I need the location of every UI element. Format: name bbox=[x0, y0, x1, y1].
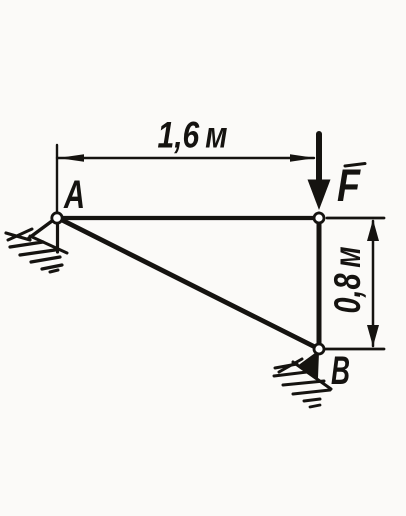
member CB (vertical bar) bbox=[317, 214, 322, 349]
support B hatch cross stroke bbox=[279, 359, 302, 372]
support B hatch 2 bbox=[274, 372, 307, 376]
svg-text:0,8 м: 0,8 м bbox=[327, 247, 368, 314]
support A right side bbox=[56, 222, 59, 252]
pin joint B bbox=[314, 344, 324, 354]
support B hatch 1 bbox=[275, 364, 297, 368]
vertical dimension top extension line bbox=[327, 217, 384, 220]
pin joint A bbox=[52, 213, 62, 223]
force F arrowhead bbox=[308, 180, 331, 211]
support A left side bbox=[29, 221, 52, 238]
dimension arrowhead up bbox=[367, 220, 379, 242]
support B hatch 4 bbox=[293, 390, 330, 394]
support A ground line bbox=[30, 236, 67, 253]
svg-text:B: B bbox=[331, 349, 350, 393]
support A hatch 5 bbox=[42, 265, 62, 269]
dimension arrowhead left bbox=[58, 154, 84, 162]
support A hatch 6 bbox=[50, 270, 58, 272]
support B hatch 6 bbox=[310, 405, 320, 407]
support B ground line bbox=[293, 362, 331, 389]
dimension line 1,6 m bbox=[57, 157, 314, 159]
support A hatch 3 bbox=[20, 250, 55, 255]
pin joint C (under force) bbox=[314, 213, 324, 223]
dimension arrowhead right bbox=[290, 154, 316, 162]
support A hatch 2 bbox=[10, 242, 43, 247]
vertical dimension bottom extension line bbox=[324, 348, 384, 351]
force F arrow shaft bbox=[316, 134, 322, 183]
dimension arrowhead down bbox=[367, 325, 379, 347]
svg-text:A: A bbox=[63, 173, 85, 217]
support A hatch 1 bbox=[6, 233, 30, 240]
support B hatch 3 bbox=[283, 381, 324, 385]
svg-text:1,6 м: 1,6 м bbox=[158, 115, 228, 156]
support A hatch 4 bbox=[31, 257, 60, 262]
support B triangle (filled) bbox=[299, 352, 318, 378]
dimension extension line at A bbox=[56, 145, 58, 216]
svg-text:F: F bbox=[337, 160, 361, 211]
overline of F label bbox=[345, 164, 365, 167]
support A hatch cross stroke bbox=[8, 229, 32, 240]
support B hatch 5 bbox=[304, 399, 320, 401]
member AC (horizontal bar A to joint C) bbox=[58, 216, 319, 220]
dimension line 0,8 m bbox=[372, 221, 375, 346]
member AB (diagonal bar A to B) bbox=[58, 218, 319, 349]
